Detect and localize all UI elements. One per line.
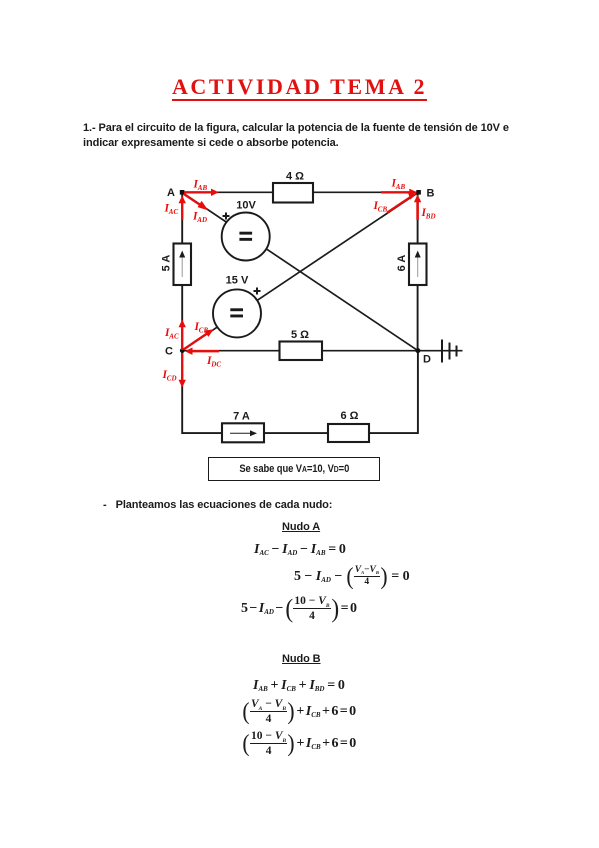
red arrow I_CB upper	[387, 193, 417, 213]
red arrow I_DC	[185, 348, 219, 355]
svg-text:AB: AB	[395, 183, 406, 191]
wire left A to C	[181, 192, 183, 351]
red label I_CB lower	[194, 321, 209, 335]
ground symbol at D	[418, 340, 463, 363]
svg-text:AB: AB	[197, 184, 208, 192]
equation A3	[241, 596, 357, 621]
resistor R 4ohm	[273, 171, 313, 203]
known values box	[208, 457, 380, 481]
equation A1	[254, 542, 346, 558]
red label I_AD	[192, 211, 207, 225]
resistor R 5ohm	[280, 329, 323, 360]
wire right B to D	[417, 192, 419, 351]
diagonal wire A to D	[182, 192, 418, 350]
svg-text:D: D	[423, 354, 431, 366]
wire lower branch right	[417, 351, 419, 434]
diagonal wire C to B	[182, 192, 419, 350]
red arrow I_CB lower	[184, 329, 214, 349]
red arrow I_BD	[414, 195, 421, 221]
svg-text:AD: AD	[196, 216, 207, 224]
red label I_AC lower	[164, 327, 179, 341]
wire lower branch left	[181, 351, 183, 434]
wire bottom C to D	[182, 350, 418, 352]
red label I_AC upper	[164, 203, 179, 217]
svg-text:CB: CB	[378, 206, 388, 214]
svg-text:6 A: 6 A	[396, 255, 408, 272]
node C	[180, 348, 185, 353]
svg-text:10V: 10V	[236, 200, 256, 212]
wire lower branch bottom	[182, 432, 418, 434]
voltage source V2 15V	[213, 275, 261, 338]
red label I_DC	[206, 355, 221, 369]
svg-text:DC: DC	[210, 361, 221, 369]
svg-text:C: C	[165, 346, 173, 358]
Nudo A heading	[282, 521, 320, 533]
svg-text:BD: BD	[425, 213, 436, 221]
current source 7A	[222, 411, 264, 443]
red label I_CD	[162, 369, 177, 383]
plus sign of 15V	[254, 288, 261, 295]
node D	[415, 348, 420, 353]
svg-text:7 A: 7 A	[233, 411, 250, 423]
svg-text:6 Ω: 6 Ω	[341, 410, 359, 422]
svg-text:5 A: 5 A	[161, 255, 173, 272]
node B	[416, 190, 421, 195]
problem statement paragraph	[83, 121, 523, 150]
svg-text:AC: AC	[168, 333, 179, 341]
svg-text:5 Ω: 5 Ω	[291, 329, 309, 341]
svg-text:4 Ω: 4 Ω	[286, 171, 304, 183]
bullet line	[103, 499, 332, 511]
wire top A to B	[182, 191, 419, 193]
equation B2	[242, 700, 356, 723]
node A	[180, 190, 185, 195]
resistor R 6ohm	[328, 410, 369, 442]
red label I_AB right	[391, 178, 406, 192]
red label I_BD	[421, 207, 436, 221]
red arrow I_AB left	[184, 189, 219, 196]
red label I_CB upper	[373, 200, 388, 214]
equation B3	[242, 732, 356, 755]
svg-text:AC: AC	[168, 208, 179, 216]
red arrow I_CD	[179, 353, 186, 388]
red arrow I_AC upper	[179, 196, 186, 221]
voltage source V1 10V	[222, 200, 270, 261]
red arrow I_AD	[184, 194, 209, 211]
title	[0, 74, 599, 100]
svg-text:15 V: 15 V	[226, 275, 249, 287]
Nudo B heading	[282, 653, 321, 665]
red label I_AB left	[193, 179, 208, 193]
equation B1	[253, 678, 345, 694]
red arrow I_AC lower	[179, 320, 186, 351]
svg-text:B: B	[427, 188, 435, 200]
svg-text:CD: CD	[167, 375, 177, 383]
svg-text:CB: CB	[199, 327, 209, 335]
current source 5A	[161, 244, 192, 286]
equation A2	[294, 565, 410, 588]
red arrow I_AB right	[381, 189, 417, 196]
current source 6A	[396, 244, 427, 286]
svg-text:A: A	[167, 187, 175, 199]
plus sign of 10V	[223, 213, 230, 220]
